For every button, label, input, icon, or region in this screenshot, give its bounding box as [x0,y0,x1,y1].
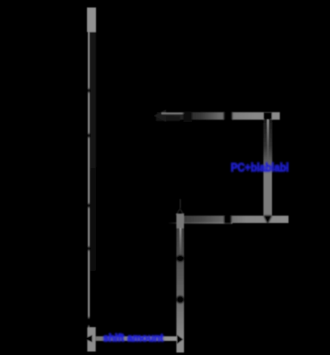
svg-text:PC+blablabl: PC+blablabl [231,162,289,174]
svg-text:shift amount: shift amount [103,333,164,345]
